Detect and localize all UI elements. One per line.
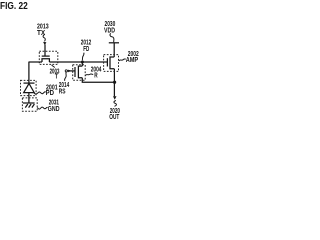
transistor R channel hat	[78, 66, 82, 78]
arrowhead OUT	[113, 96, 117, 100]
wire: main horizontal bus right segment to amp gate	[49, 61, 107, 63]
svg-text:TX: TX	[37, 28, 45, 37]
svg-text:GND: GND	[48, 104, 60, 113]
wire: PD anode to ground	[28, 93, 30, 103]
transistor R (reset) gate bar	[74, 67, 76, 77]
RS input terminal circle	[65, 70, 67, 72]
photodiode PD triangle	[24, 84, 35, 93]
dashed box ground 2031	[22, 98, 37, 111]
wire: reset drain from FD node	[81, 62, 83, 66]
svg-text:FD: FD	[83, 44, 89, 53]
leader squiggle R	[85, 74, 93, 75]
transistor T (transfer) gate bar	[42, 55, 50, 57]
transistor AMP gate bar	[106, 58, 108, 66]
leader squiggle GND	[37, 107, 47, 109]
arrowhead RS	[68, 70, 71, 73]
dashed box transfer transistor 2003	[39, 51, 58, 64]
transistor T channel hat	[42, 59, 49, 62]
wire: left vertical down to photodiode	[28, 62, 30, 84]
svg-text:R: R	[94, 71, 98, 80]
ground hatching	[25, 104, 34, 108]
leader squiggle OUT	[114, 101, 116, 107]
wire: VDD to amp drain	[113, 43, 115, 57]
svg-text:FIG. 22: FIG. 22	[0, 1, 28, 12]
transistor AMP channel hat	[110, 57, 114, 69]
svg-text:PD: PD	[46, 88, 54, 97]
svg-text:AMP: AMP	[126, 55, 139, 64]
leader squiggle AMP	[119, 59, 126, 61]
ground bar	[23, 102, 35, 104]
wire: amp source down to out	[113, 69, 115, 97]
leader squiggle from TX to transfer gate	[43, 34, 45, 41]
leader squiggle VDD	[110, 33, 114, 42]
svg-text:OUT: OUT	[109, 112, 119, 120]
leader squiggle FD to node	[82, 53, 84, 61]
svg-text:VDD: VDD	[104, 25, 115, 34]
node FD junction dot	[81, 61, 84, 64]
wire: RS gate line	[68, 70, 76, 72]
wire: main horizontal bus left segment	[29, 61, 42, 63]
arrowhead TX	[43, 42, 46, 45]
wire: TX gate vertical	[44, 45, 46, 57]
leader squiggle RS to circle	[65, 72, 67, 81]
node OUT junction dot	[113, 81, 116, 84]
svg-text:RS: RS	[59, 86, 66, 95]
dashed box photodiode 2001	[21, 80, 37, 95]
leader squiggle from transfer box to label 2003	[52, 65, 55, 68]
wire: reset source down and right to out node	[82, 78, 114, 82]
photodiode PD cathode bar	[24, 82, 35, 84]
dashed box reset transistor 2004	[73, 65, 86, 81]
leader squiggle PD	[34, 92, 46, 94]
dashed box amp transistor 2002	[104, 55, 119, 72]
VDD supply T-bar	[109, 42, 119, 44]
